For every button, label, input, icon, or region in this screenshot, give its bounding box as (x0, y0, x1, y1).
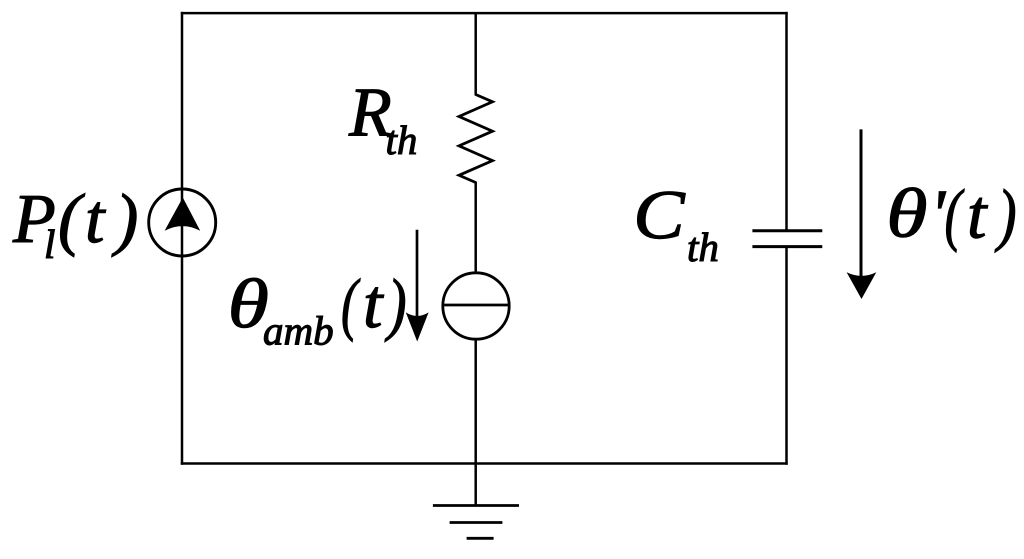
wire middle between resistor and source (474, 182, 477, 274)
wire left (181, 12, 184, 465)
capacitor Cth top plate (752, 229, 822, 232)
arrow theta_amb direction (406, 230, 429, 342)
capacitor Cth bottom plate (752, 245, 822, 248)
wire middle upper (474, 13, 477, 95)
svg-text:t: t (85, 181, 106, 258)
arrow theta prime direction (847, 129, 877, 299)
wire right upper (785, 12, 788, 231)
svg-text:t: t (363, 266, 384, 343)
current source P_l arrow (165, 198, 201, 231)
svg-text:(: ( (58, 181, 85, 258)
svg-text:): ) (994, 177, 1016, 254)
svg-text:): ) (111, 181, 138, 258)
resistor Rth (459, 95, 493, 183)
label theta prime (t) (886, 176, 1016, 254)
wire middle lower (474, 339, 477, 464)
label theta_amb(t) (228, 266, 407, 354)
svg-text:th: th (687, 224, 719, 270)
svg-text:): ) (384, 266, 406, 343)
wire right lower (785, 247, 788, 465)
source theta_amb chord (443, 304, 510, 307)
current source P_l circle (149, 189, 216, 256)
svg-text:l: l (44, 221, 55, 267)
svg-text:(: ( (341, 266, 360, 343)
wire ground stem (474, 464, 477, 506)
source theta_amb circle (443, 273, 509, 339)
svg-text:': ' (930, 177, 946, 254)
wire top (181, 12, 788, 15)
svg-text:(: ( (945, 177, 965, 254)
label C_th (633, 177, 719, 270)
svg-text:th: th (386, 117, 418, 163)
svg-text:θ: θ (886, 176, 927, 253)
wire bottom (181, 462, 788, 465)
svg-text:amb: amb (263, 308, 334, 354)
label P_l(t) (12, 181, 138, 267)
svg-text:t: t (967, 177, 988, 254)
label R_th (348, 75, 417, 164)
ground (433, 506, 519, 539)
svg-text:C: C (633, 177, 686, 254)
